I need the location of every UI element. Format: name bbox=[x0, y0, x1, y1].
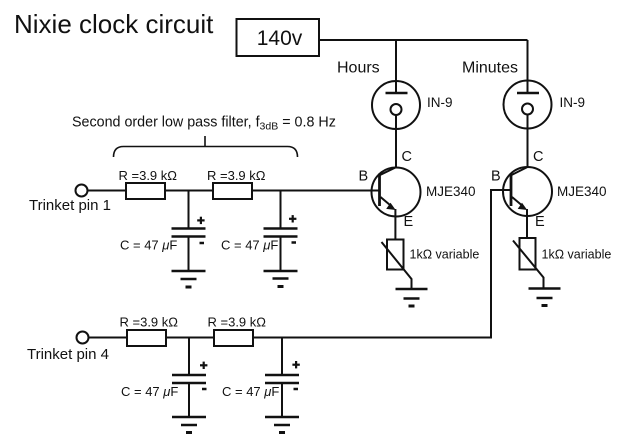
resistor R2 3.9k bbox=[213, 183, 252, 199]
svg-text:C: C bbox=[402, 149, 412, 165]
label C1 minus bbox=[200, 242, 205, 245]
label C2 minus bbox=[292, 241, 297, 244]
terminal Trinket pin 1 bbox=[76, 185, 88, 197]
svg-text:140v: 140v bbox=[257, 27, 303, 50]
svg-text:Second order low pass filter,: Second order low pass filter, f3dB = 0.8… bbox=[72, 115, 336, 133]
filter annotation bracket bbox=[114, 136, 298, 157]
label C4 plus bbox=[292, 361, 299, 368]
wire R3 to R4 bbox=[166, 337, 214, 339]
svg-text:Trinket pin 4: Trinket pin 4 bbox=[27, 346, 109, 363]
nixie tube V2 cathode dot bbox=[522, 104, 533, 115]
transistor Q2 MJE340 bbox=[503, 167, 552, 216]
ground G1 (under Q1) bbox=[396, 289, 428, 306]
wire pin1 to R1 bbox=[88, 190, 127, 192]
wire node to C2 bbox=[280, 191, 282, 229]
supply box 140v bbox=[237, 19, 320, 56]
resistor R1 3.9k bbox=[126, 183, 165, 199]
wire Q2 emitter bbox=[526, 209, 528, 238]
svg-text:C = 47 μF: C = 47 μF bbox=[120, 238, 177, 253]
nixie tube V1 anode bar bbox=[386, 92, 408, 95]
RV2 wiper diagonal bbox=[513, 241, 544, 289]
wire pin4 to R3 bbox=[89, 337, 128, 339]
wire node to C4 bbox=[281, 338, 283, 376]
capacitor C2 47uF bbox=[264, 229, 298, 237]
svg-text:B: B bbox=[359, 169, 369, 185]
svg-text:IN-9: IN-9 bbox=[560, 95, 586, 110]
ground G2 (under Q2) bbox=[529, 289, 561, 306]
nixie tube V2 anode bar bbox=[517, 92, 539, 95]
svg-text:R =3.9 kΩ: R =3.9 kΩ bbox=[208, 315, 267, 330]
nixie tube V2 envelope bbox=[504, 81, 552, 129]
svg-text:C = 47 μF: C = 47 μF bbox=[121, 384, 178, 399]
wire V2 cathode to Q2 collector bbox=[527, 115, 529, 168]
svg-text:R =3.9 kΩ: R =3.9 kΩ bbox=[207, 168, 266, 183]
svg-text:MJE340: MJE340 bbox=[557, 184, 607, 199]
svg-text:Nixie clock circuit: Nixie clock circuit bbox=[14, 9, 214, 39]
wire C4 to ground bbox=[281, 383, 283, 417]
label C4 minus bbox=[294, 388, 299, 391]
resistor R3 3.9k bbox=[127, 330, 166, 346]
wire R2 to Q1 base bbox=[252, 190, 379, 192]
capacitor C4 47uF bbox=[265, 375, 299, 383]
wire R4 to Q2 base bbox=[253, 190, 511, 338]
capacitor C1 47uF bbox=[172, 229, 206, 237]
svg-text:C: C bbox=[533, 149, 543, 165]
svg-text:E: E bbox=[535, 214, 545, 230]
ground G6 (under C4) bbox=[265, 417, 299, 433]
label C3 minus bbox=[202, 388, 207, 391]
svg-text:1kΩ variable: 1kΩ variable bbox=[542, 248, 612, 262]
label C2 plus bbox=[289, 215, 296, 222]
transistor Q1 MJE340 bbox=[372, 167, 421, 216]
wire C1 to ground bbox=[188, 237, 190, 272]
wire node to C3 bbox=[188, 338, 190, 376]
wire R1 to R2 bbox=[165, 190, 213, 192]
svg-text:R =3.9 kΩ: R =3.9 kΩ bbox=[120, 315, 179, 330]
svg-text:B: B bbox=[491, 169, 501, 185]
svg-text:Minutes: Minutes bbox=[462, 60, 518, 77]
wire hours anode drop bbox=[395, 40, 397, 93]
variable resistor RV2 1k bbox=[520, 238, 536, 270]
terminal Trinket pin 4 bbox=[77, 332, 89, 344]
nixie tube V1 cathode dot bbox=[391, 104, 402, 115]
wire C3 to ground bbox=[188, 383, 190, 417]
svg-text:E: E bbox=[404, 214, 414, 230]
svg-text:Hours: Hours bbox=[337, 60, 380, 77]
ground G4 (under C2) bbox=[264, 271, 298, 287]
capacitor C3 47uF bbox=[172, 375, 206, 383]
wire Q1 emitter bbox=[394, 209, 396, 240]
label C1 plus bbox=[197, 217, 204, 224]
svg-text:R =3.9 kΩ: R =3.9 kΩ bbox=[119, 168, 178, 183]
wire supply rail bbox=[319, 39, 528, 41]
wire V1 cathode to Q1 collector bbox=[395, 115, 397, 168]
RV1 wiper diagonal bbox=[382, 242, 412, 289]
ground G5 (under C3) bbox=[172, 417, 206, 433]
svg-text:1kΩ variable: 1kΩ variable bbox=[410, 248, 480, 262]
nixie tube V1 envelope bbox=[372, 81, 420, 129]
variable resistor RV1 1k bbox=[387, 240, 404, 270]
wire C2 to ground bbox=[280, 237, 282, 272]
svg-text:MJE340: MJE340 bbox=[426, 184, 476, 199]
resistor R4 3.9k bbox=[214, 330, 253, 346]
label C3 plus bbox=[200, 362, 207, 369]
svg-text:C = 47 μF: C = 47 μF bbox=[222, 384, 279, 399]
svg-text:IN-9: IN-9 bbox=[427, 95, 453, 110]
svg-text:C = 47 μF: C = 47 μF bbox=[221, 238, 278, 253]
wire minutes anode drop bbox=[527, 40, 529, 93]
wire node to C1 bbox=[188, 191, 190, 229]
ground G3 (under C1) bbox=[172, 271, 206, 287]
svg-text:Trinket pin 1: Trinket pin 1 bbox=[29, 197, 111, 214]
